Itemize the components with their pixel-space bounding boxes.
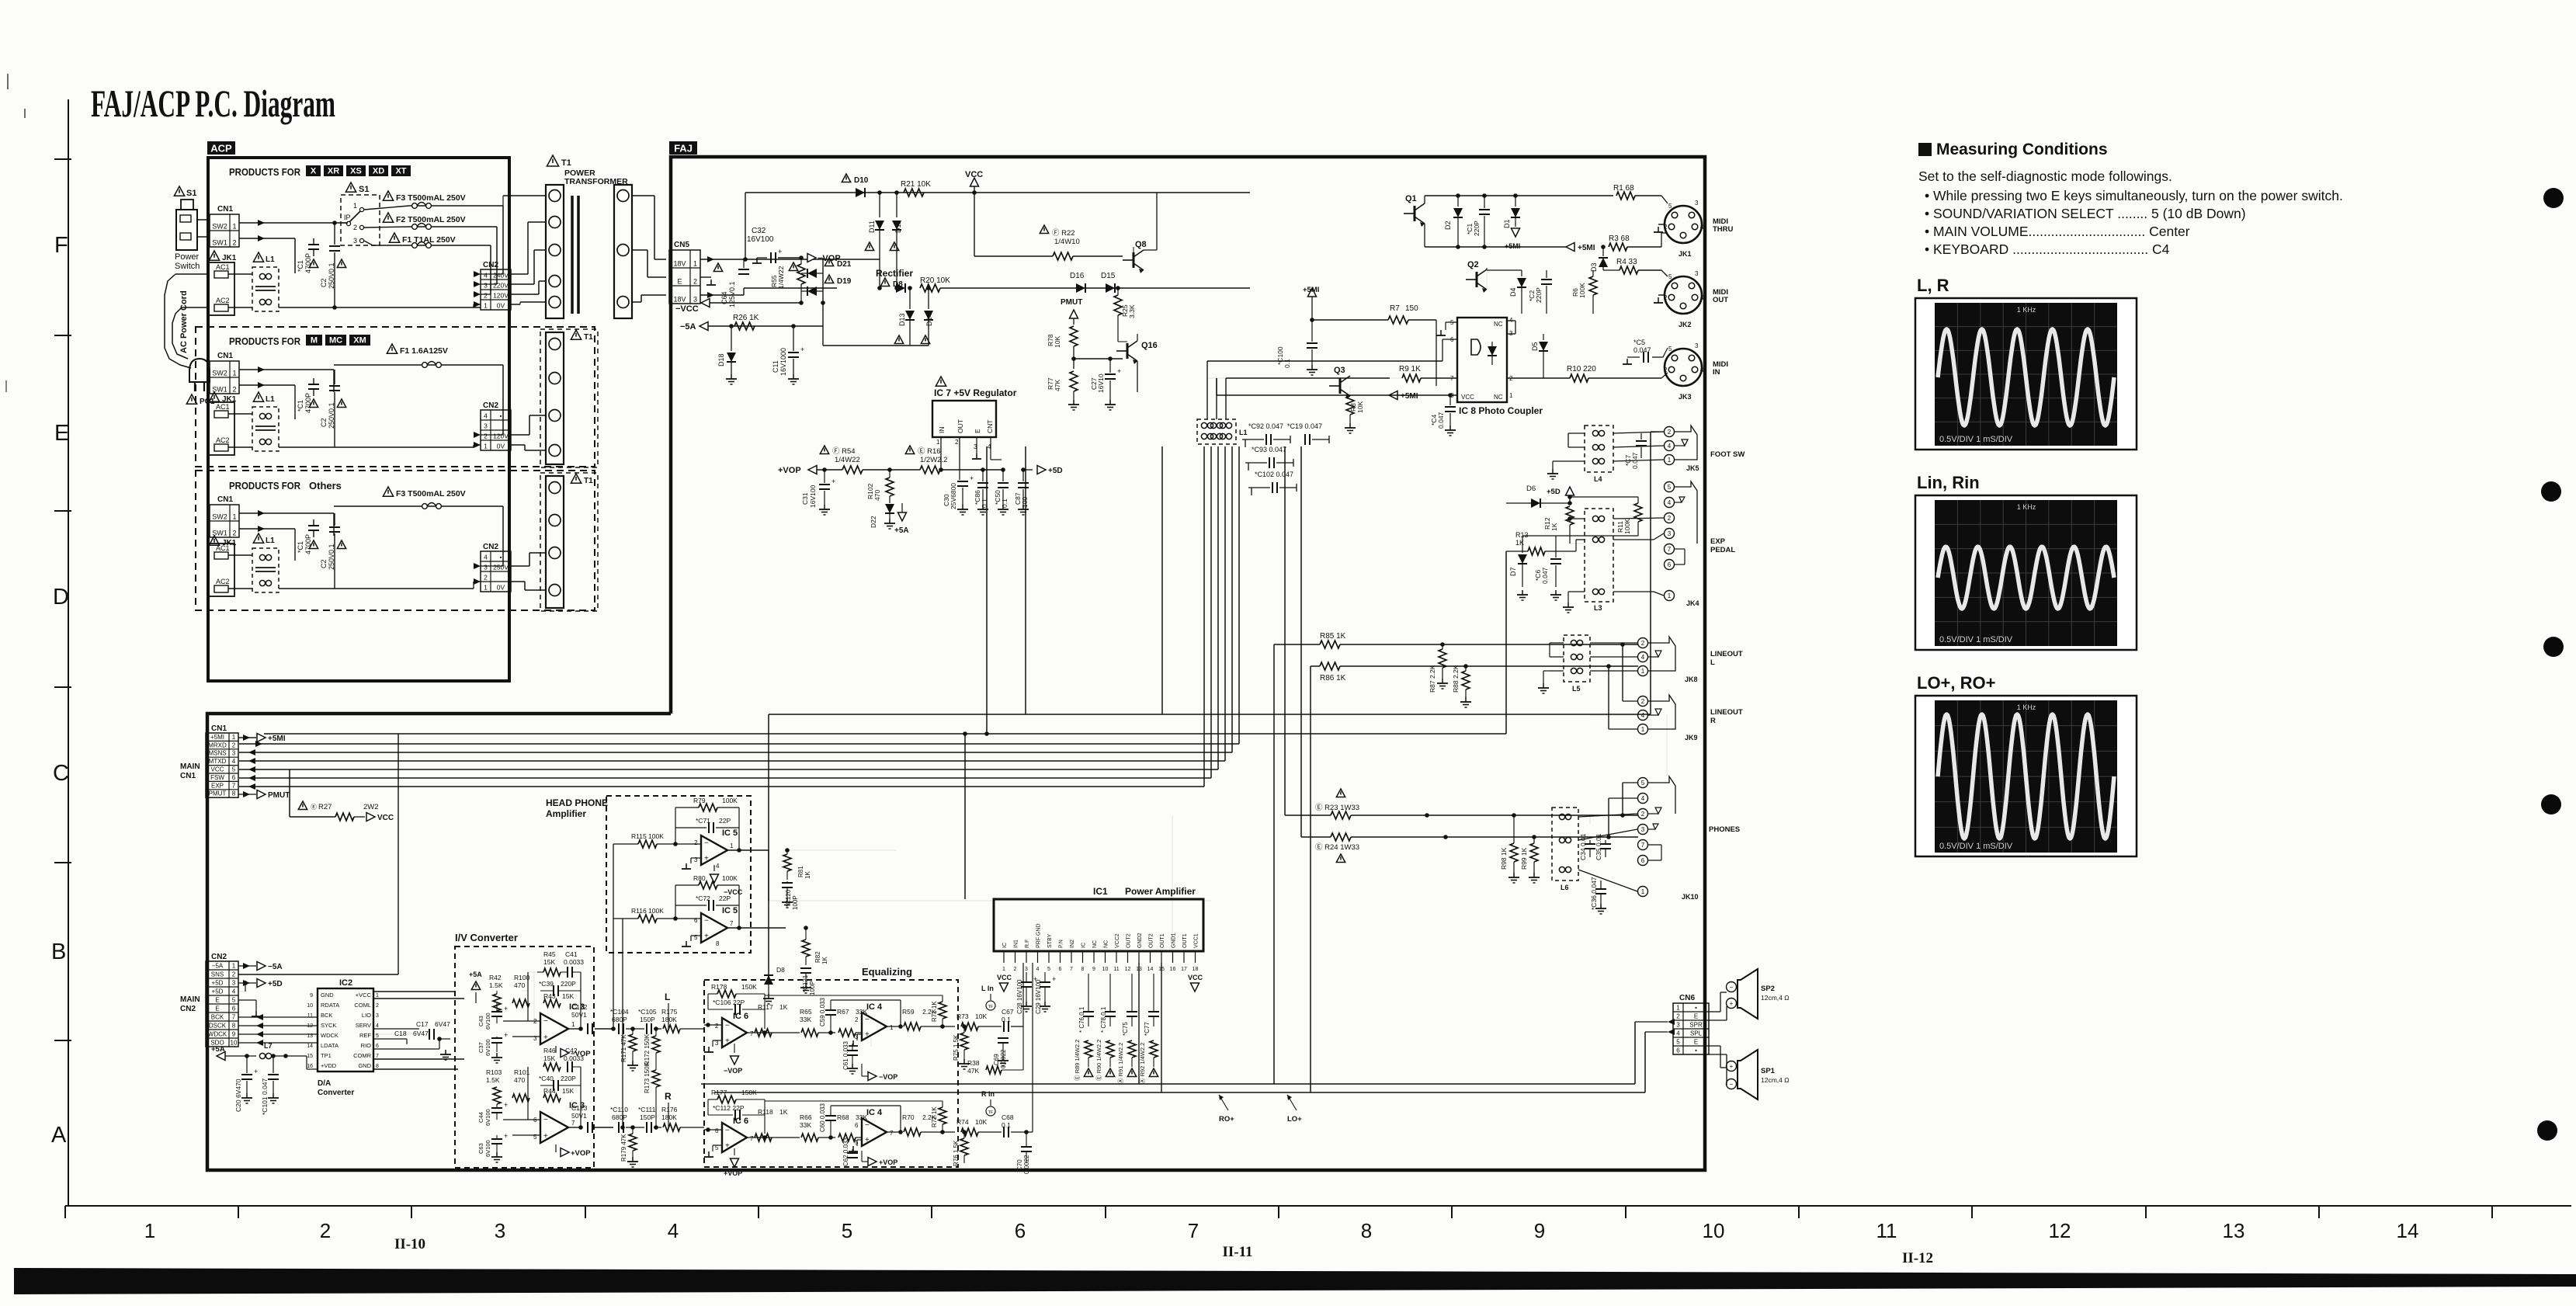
dashed block PRODUCTS FOR Others [196, 471, 595, 610]
svg-text:3: 3 [1641, 826, 1645, 833]
oscillogram photo Lin, Rin [1915, 495, 2137, 650]
svg-text:C59 0.033: C59 0.033 [819, 998, 826, 1026]
svg-text:R66: R66 [800, 1113, 812, 1121]
inductor block L1 [1197, 419, 1236, 444]
svg-text:P.N: P.N [1059, 940, 1064, 948]
svg-text:IC: IC [1002, 943, 1008, 948]
svg-text:16V100: 16V100 [809, 485, 817, 508]
svg-text:*C102 0.047: *C102 0.047 [1255, 471, 1293, 478]
svg-text:R172 150K: R172 150K [644, 1033, 651, 1065]
svg-text:VCC: VCC [965, 170, 983, 179]
svg-text:100K: 100K [1623, 519, 1631, 534]
svg-text:D18: D18 [717, 353, 725, 366]
svg-text:*C101 0.047: *C101 0.047 [261, 1078, 269, 1115]
svg-text:2: 2 [232, 971, 236, 978]
wire C59 top [831, 999, 901, 1001]
svg-text:C69: C69 [993, 1054, 1000, 1065]
wire Q16 base [1074, 358, 1123, 359]
svg-text:R118: R118 [758, 1108, 773, 1116]
svg-text:15K: 15K [543, 1054, 555, 1062]
power amplifier IC1 box [994, 899, 1203, 951]
wire Q1 collector [1424, 196, 1425, 203]
diode D8 [880, 278, 889, 287]
svg-text:R171 47K: R171 47K [620, 1034, 627, 1062]
svg-text:−: − [543, 1017, 548, 1026]
svg-text:SPL: SPL [1690, 1030, 1703, 1037]
svg-text:10K: 10K [975, 1118, 987, 1126]
svg-text:*C1: *C1 [297, 260, 304, 272]
svg-text:150: 150 [1405, 304, 1418, 313]
wires into headphone amp [613, 844, 614, 1029]
svg-text:5: 5 [232, 766, 236, 773]
svg-text:R117: R117 [758, 1003, 773, 1011]
svg-text:SPR: SPR [1689, 1022, 1703, 1029]
wire mid rail [940, 287, 1250, 289]
svg-text:Power Amplifier: Power Amplifier [1125, 886, 1196, 897]
svg-text:6: 6 [1641, 857, 1645, 864]
svg-text:E: E [974, 429, 981, 433]
svg-text:−: − [704, 839, 709, 848]
svg-text:R79: R79 [693, 797, 706, 804]
svg-text:+: + [504, 1101, 508, 1109]
connector JK1 (block2) [209, 392, 219, 401]
+5D arrow out [238, 982, 256, 984]
svg-text:JK10: JK10 [1682, 893, 1699, 901]
svg-text:12: 12 [1125, 967, 1131, 972]
svg-text:OUT2: OUT2 [1127, 933, 1132, 948]
svg-text:150P: 150P [640, 1113, 655, 1121]
svg-text:Amplifier: Amplifier [546, 808, 586, 819]
svg-text:F1 1.6A125V: F1 1.6A125V [400, 346, 448, 356]
svg-text:Others: Others [309, 480, 342, 491]
long wire RO+ line [701, 1083, 1635, 1085]
svg-text:IC 6: IC 6 [733, 1117, 748, 1126]
svg-text:−: − [725, 1127, 730, 1135]
svg-text:8: 8 [1361, 1219, 1372, 1242]
svg-text:5: 5 [232, 997, 236, 1004]
svg-text:5: 5 [1047, 967, 1050, 972]
svg-text:OUT2: OUT2 [1149, 933, 1154, 948]
svg-text:R76 1.5K: R76 1.5K [953, 1140, 960, 1166]
svg-text:18V: 18V [673, 296, 686, 304]
svg-text:R3 68: R3 68 [1609, 234, 1630, 243]
svg-text:10: 10 [231, 1040, 238, 1047]
svg-text:5: 5 [1668, 273, 1672, 280]
svg-text:−5A: −5A [680, 322, 696, 332]
svg-text:*C1: *C1 [297, 541, 304, 553]
wire SW1 row block2 [239, 384, 295, 386]
wires CN5 out [700, 259, 880, 260]
svg-text:CN5: CN5 [674, 241, 689, 249]
svg-text:R73: R73 [956, 1012, 969, 1020]
-5A arrow out [238, 965, 256, 967]
+VOP arrow IC6 lower [734, 1148, 735, 1155]
op-amp IC5 lower [701, 913, 727, 943]
wire vertical x1243 to IC1 [964, 734, 966, 899]
svg-text:HEAD PHONE: HEAD PHONE [546, 797, 608, 808]
svg-text:+: + [504, 1132, 508, 1140]
svg-text:Ⓔ R89 1/4W2.2: Ⓔ R89 1/4W2.2 [1074, 1040, 1081, 1081]
svg-text:CN6: CN6 [1679, 994, 1695, 1002]
svg-text:1: 1 [730, 842, 734, 849]
svg-text:VCC: VCC [1461, 394, 1474, 401]
svg-text:+5D: +5D [212, 980, 224, 987]
+5A down arrow [901, 503, 903, 512]
svg-text:4: 4 [232, 758, 236, 765]
svg-text:+5MI: +5MI [1401, 392, 1418, 401]
svg-text:6: 6 [855, 1122, 859, 1129]
svg-text:Q3: Q3 [1334, 366, 1345, 375]
svg-text:JK3: JK3 [1679, 393, 1692, 401]
svg-text:CN2: CN2 [483, 401, 498, 410]
wire vertical x990 [768, 714, 769, 977]
svg-text:R26 1K: R26 1K [733, 314, 759, 322]
svg-text:6V100: 6V100 [484, 1109, 491, 1126]
svg-text:FOOT SW: FOOT SW [1710, 450, 1745, 459]
wire y945 +corner [239, 737, 256, 738]
svg-text:3: 3 [376, 1013, 379, 1019]
transformer T1 (block3) [540, 473, 598, 611]
svg-text:R46: R46 [543, 1047, 556, 1054]
svg-text:+5A: +5A [469, 971, 482, 978]
svg-text:T1: T1 [561, 158, 571, 168]
svg-text:5: 5 [1641, 780, 1645, 787]
svg-text:L1: L1 [266, 537, 275, 545]
regulator IC7 box [936, 377, 946, 386]
svg-text:SP1: SP1 [1761, 1067, 1776, 1075]
svg-text:+VOP: +VOP [778, 466, 801, 475]
svg-text:R10 220: R10 220 [1567, 365, 1596, 373]
svg-text:9: 9 [1092, 967, 1095, 972]
svg-text:*C5: *C5 [1633, 339, 1645, 346]
svg-text:4: 4 [1700, 224, 1704, 231]
svg-text:+: + [725, 1037, 730, 1046]
svg-text:11: 11 [307, 1013, 313, 1019]
svg-text:C31: C31 [801, 492, 809, 505]
svg-text:C2: C2 [320, 278, 328, 287]
svg-text:SW2: SW2 [212, 223, 227, 231]
svg-text:D4: D4 [1509, 287, 1517, 297]
wires CN2 E rows [238, 999, 256, 1001]
svg-text:12cm,4 Ω: 12cm,4 Ω [1761, 1076, 1790, 1084]
svg-text:+: + [800, 346, 804, 353]
svg-text:1: 1 [232, 963, 236, 970]
svg-text:+5MI: +5MI [1303, 286, 1319, 294]
diode D21 [825, 258, 833, 266]
svg-text:• SOUND/VARIATION SELECT .....: • SOUND/VARIATION SELECT ........ 5 (10 … [1925, 206, 2246, 221]
svg-text:1: 1 [376, 993, 379, 999]
svg-text:1: 1 [693, 260, 697, 268]
wires to CN2 block3 [502, 506, 504, 566]
svg-text:Converter: Converter [318, 1089, 354, 1097]
svg-text:D5: D5 [1531, 342, 1539, 351]
svg-text:JK8: JK8 [1685, 676, 1698, 683]
svg-text:C28 16V100: C28 16V100 [1016, 979, 1023, 1014]
MIDI IN connector JK3 [1665, 349, 1702, 386]
svg-text:D19: D19 [837, 277, 852, 286]
svg-text:1: 1 [1641, 668, 1645, 675]
VCC arrow [974, 186, 975, 193]
svg-text:+5MI: +5MI [210, 734, 224, 741]
svg-text:1K: 1K [779, 1108, 788, 1116]
transformer T1 primary winding [546, 185, 564, 318]
svg-text:1.5K: 1.5K [489, 981, 503, 989]
svg-text:Ⓕ R54: Ⓕ R54 [832, 447, 856, 456]
svg-text:1: 1 [232, 513, 236, 521]
connector JK1 (block3) [209, 536, 219, 545]
svg-text:−5A: −5A [268, 963, 283, 971]
resistor R23 1W33 [1336, 789, 1345, 797]
wires to CN2 block2 [502, 365, 504, 435]
svg-text:120V: 120V [493, 292, 509, 300]
svg-text:150K: 150K [741, 983, 757, 991]
svg-text:3: 3 [1695, 200, 1699, 207]
svg-text:16: 16 [307, 1064, 313, 1069]
svg-text:FAJ/ACP P.C. Diagram: FAJ/ACP P.C. Diagram [91, 82, 335, 125]
inductor block L6 [1552, 808, 1578, 881]
svg-text:VCC: VCC [997, 974, 1012, 981]
svg-text:LINEOUT: LINEOUT [1710, 708, 1743, 717]
svg-text:14: 14 [1147, 967, 1154, 972]
svg-text:+: + [543, 1132, 548, 1141]
svg-text:+5A: +5A [211, 1045, 225, 1054]
svg-text:4: 4 [484, 412, 488, 420]
LINEOUT L jack JK8 [1638, 638, 1648, 648]
svg-text:R45: R45 [543, 950, 556, 958]
svg-text:*C105: *C105 [638, 1008, 657, 1016]
fuse F3 T500mAL 250V (top) [383, 191, 393, 200]
+5D arrow right [1023, 469, 1033, 471]
-VOP arrow IC4 [870, 1037, 872, 1047]
svg-text:C2: C2 [320, 559, 328, 568]
svg-text:R103: R103 [486, 1068, 502, 1076]
svg-text:+5MI: +5MI [268, 735, 286, 743]
svg-text:R70: R70 [902, 1113, 915, 1121]
-VCC arrow IC5 [713, 865, 715, 871]
svg-text:3: 3 [693, 296, 697, 304]
svg-text:Switch: Switch [175, 262, 200, 271]
svg-text:1: 1 [232, 223, 236, 231]
svg-text:R59: R59 [902, 1008, 915, 1016]
svg-text:−: − [865, 1016, 870, 1024]
svg-text:2: 2 [1014, 967, 1017, 972]
svg-text:MAIN: MAIN [180, 995, 200, 1004]
svg-text:C60 0.033: C60 0.033 [819, 1103, 826, 1132]
svg-text:L1: L1 [1239, 429, 1248, 436]
resistor R27 2W2 [298, 801, 307, 810]
svg-text:LO+: LO+ [1287, 1115, 1302, 1124]
svg-text:+: + [1730, 1000, 1734, 1007]
svg-text:17: 17 [1181, 967, 1187, 972]
svg-text:14: 14 [2397, 1219, 2419, 1242]
svg-text:2: 2 [376, 1003, 379, 1009]
svg-text:120V: 120V [493, 432, 509, 440]
svg-text:1: 1 [571, 1021, 575, 1028]
wire AC1 to L1 [228, 273, 252, 275]
-5A arrow [700, 322, 708, 331]
svg-text:+: + [970, 474, 974, 482]
svg-text:6: 6 [715, 1127, 719, 1134]
svg-text:AC2: AC2 [216, 297, 230, 304]
svg-text:33K: 33K [800, 1016, 811, 1023]
svg-text:−: − [1730, 1081, 1734, 1088]
svg-text:JK1: JK1 [1679, 250, 1692, 258]
svg-text:ACP: ACP [210, 143, 232, 155]
svg-text:0.0033: 0.0033 [564, 1054, 584, 1062]
svg-text:Ⓐ R91 1/4W2.2: Ⓐ R91 1/4W2.2 [1117, 1043, 1124, 1084]
svg-text:11: 11 [1876, 1219, 1897, 1242]
wire R45 loop [533, 972, 535, 1021]
svg-text:CN2: CN2 [211, 953, 227, 961]
svg-text:14: 14 [307, 1044, 313, 1049]
svg-text:*C75: *C75 [1122, 1022, 1129, 1036]
wires into IC1 [1022, 963, 1024, 1026]
svg-text:2: 2 [484, 292, 488, 300]
binder hole dots right edge [2543, 188, 2564, 208]
svg-text:SERV: SERV [356, 1022, 371, 1029]
svg-text:JK9: JK9 [1685, 734, 1698, 742]
svg-text:COML: COML [354, 1002, 371, 1009]
svg-text:1K: 1K [804, 871, 811, 879]
svg-text:CN1: CN1 [180, 772, 196, 780]
svg-text:4: 4 [1036, 967, 1040, 972]
line filter L1 (block2) [253, 392, 263, 401]
svg-text:C34 0.01: C34 0.01 [1579, 833, 1587, 860]
svg-text:+: + [543, 1033, 548, 1042]
svg-text:R65: R65 [800, 1008, 812, 1016]
svg-text:0.5V/DIV 1 mS/DIV: 0.5V/DIV 1 mS/DIV [1939, 635, 2013, 644]
svg-text:22P: 22P [719, 817, 731, 825]
svg-text:6: 6 [376, 1044, 379, 1049]
svg-text:220P: 220P [561, 980, 576, 988]
svg-text:0V: 0V [497, 584, 505, 592]
svg-text:PMUT: PMUT [209, 790, 227, 797]
LINEOUT R jack JK9 [1638, 696, 1648, 707]
svg-text:Ⓔ R24 1W33: Ⓔ R24 1W33 [1315, 843, 1359, 852]
svg-text:7: 7 [730, 920, 734, 927]
svg-text:PHONES: PHONES [1709, 825, 1740, 834]
svg-text:33K: 33K [800, 1121, 811, 1129]
svg-text:7: 7 [571, 1120, 575, 1127]
wire R12 to L3 [1569, 519, 1571, 544]
svg-text:1 KHz: 1 KHz [2017, 503, 2036, 511]
svg-text:IP: IP [344, 214, 351, 221]
wire bundle L1 upward [1206, 378, 1208, 419]
svg-text:R67: R67 [837, 1008, 849, 1016]
svg-text:CNT: CNT [986, 420, 994, 433]
svg-text:18: 18 [1193, 967, 1199, 972]
inductor block L5 [1564, 635, 1590, 682]
svg-text:R87 2.2K: R87 2.2K [1429, 665, 1436, 693]
+VOP arrow IC4 lower [868, 1158, 877, 1166]
svg-text:*C1: *C1 [297, 400, 304, 412]
svg-text:A: A [51, 1123, 67, 1148]
svg-text:8: 8 [376, 1064, 379, 1069]
+5A arrow L7 [217, 1052, 225, 1061]
svg-text:+VDD: +VDD [321, 1062, 337, 1069]
svg-text:−VCC: −VCC [675, 304, 699, 314]
svg-text:1: 1 [1509, 392, 1513, 399]
svg-text:Lin, Rin: Lin, Rin [1917, 473, 1980, 492]
svg-text:2: 2 [1668, 429, 1672, 436]
svg-text:GND1: GND1 [1172, 933, 1177, 948]
svg-text:1/4W10: 1/4W10 [1054, 238, 1080, 246]
svg-text:1K: 1K [1550, 523, 1558, 531]
svg-text:VCC2: VCC2 [1115, 933, 1120, 948]
svg-text:OUT: OUT [956, 419, 964, 433]
svg-text:PRODUCTS FOR: PRODUCTS FOR [229, 480, 301, 491]
wires CN2 to T1 block3 [511, 565, 529, 567]
svg-text:12: 12 [2049, 1219, 2071, 1242]
svg-text:C32: C32 [752, 227, 766, 235]
svg-text:C18: C18 [394, 1030, 407, 1037]
svg-text:E: E [1694, 1013, 1698, 1020]
svg-text:0.5V/DIV 1 mS/DIV: 0.5V/DIV 1 mS/DIV [1939, 435, 2013, 444]
svg-text:M: M [311, 336, 318, 346]
ACP board outline [208, 158, 509, 681]
svg-text:4: 4 [1641, 795, 1645, 802]
svg-text:+: + [504, 1005, 508, 1012]
svg-text:1: 1 [232, 734, 236, 741]
wires CN2 to T1 block2 [511, 434, 529, 436]
svg-text:680P: 680P [612, 1113, 627, 1121]
wires plug to JK1 [175, 273, 209, 275]
svg-text:8: 8 [232, 1023, 236, 1030]
svg-text:2: 2 [693, 278, 697, 286]
svg-text:16: 16 [1170, 967, 1176, 972]
svg-text:F: F [54, 233, 68, 258]
svg-text:MAIN: MAIN [180, 762, 200, 771]
svg-text:1: 1 [484, 302, 488, 310]
svg-text:4: 4 [1700, 294, 1704, 301]
+5MI down marker [1512, 228, 1520, 237]
svg-text:SP2: SP2 [1761, 985, 1775, 993]
diode D19 [825, 275, 833, 283]
svg-text:CN2: CN2 [483, 543, 498, 551]
svg-text:Equalizing: Equalizing [862, 966, 912, 978]
svg-text:IC 7 +5V Regulator: IC 7 +5V Regulator [934, 387, 1017, 398]
svg-text:FAJ: FAJ [674, 143, 693, 155]
svg-text:10K: 10K [975, 1012, 987, 1020]
svg-text:IC 5: IC 5 [722, 906, 738, 915]
svg-text:MRXD: MRXD [208, 742, 227, 749]
svg-text:IN1: IN1 [1014, 940, 1019, 948]
svg-text:3: 3 [1676, 1022, 1680, 1029]
svg-text:6V100: 6V100 [484, 1140, 491, 1157]
svg-text:LO+, RO+: LO+, RO+ [1917, 673, 1995, 693]
svg-text:L3: L3 [1594, 604, 1602, 612]
svg-text:S1: S1 [359, 185, 369, 194]
long wire LO+ line [714, 1092, 1645, 1093]
svg-text:8: 8 [1081, 967, 1085, 972]
svg-text:CN1: CN1 [217, 495, 233, 504]
svg-text:180K: 180K [661, 1016, 677, 1023]
svg-text:4: 4 [716, 863, 720, 870]
svg-text:R27: R27 [318, 803, 332, 811]
svg-text:D3: D3 [1590, 262, 1598, 272]
svg-text:II-12: II-12 [1902, 1250, 1933, 1266]
svg-text:D16: D16 [1070, 272, 1085, 280]
svg-text:AC Power Cord: AC Power Cord [179, 290, 189, 353]
transformer T1 (block2) [540, 329, 598, 467]
svg-text:R176: R176 [661, 1106, 678, 1113]
svg-text:C11: C11 [772, 360, 779, 373]
svg-text:0.047: 0.047 [1437, 412, 1445, 429]
op-amp IC6 lower [722, 1123, 747, 1152]
svg-text:WDCK: WDCK [208, 1031, 227, 1038]
svg-text:E: E [215, 1006, 219, 1012]
wire SW2 row block2 [239, 369, 334, 370]
